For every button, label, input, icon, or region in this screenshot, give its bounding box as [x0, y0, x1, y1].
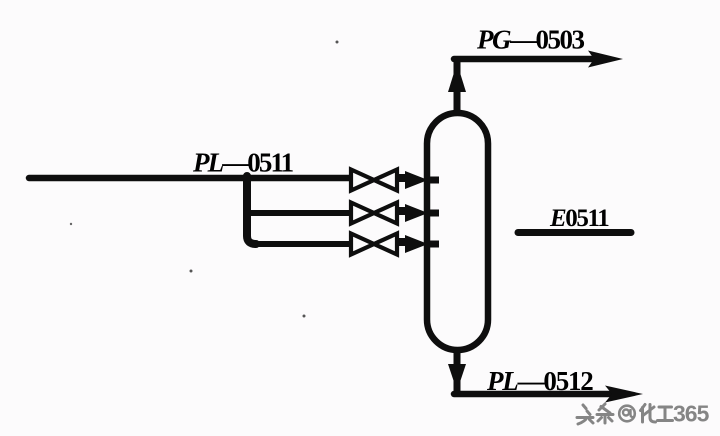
svg-text:365: 365	[673, 401, 710, 427]
arrowhead right on PG-0503 line	[588, 51, 623, 68]
wire vessel top outlet vertical	[454, 59, 461, 113]
vessel (vertical drum)	[427, 113, 488, 350]
wire main feed PL-0511 horizontal	[29, 175, 352, 182]
inlet stub into vessel row1	[427, 177, 439, 184]
arrowhead up on top outlet	[448, 63, 466, 92]
wire PL-0512 bottom horizontal	[454, 391, 610, 398]
svg-text:PG—0503: PG—0503	[476, 25, 585, 55]
arrow into vessel from V2	[397, 204, 428, 222]
wire branch 3 horizontal	[252, 241, 352, 247]
glyph tiao	[597, 404, 613, 423]
scan speck 4	[70, 223, 72, 225]
underline bar of E0511	[518, 229, 631, 236]
scan speck 2	[190, 270, 193, 273]
svg-text:PL—0512: PL—0512	[486, 366, 593, 396]
wire branch 2 horizontal	[247, 210, 352, 216]
inlet stub into vessel row3	[427, 241, 439, 248]
wire vessel bottom outlet vertical	[454, 350, 461, 392]
scan speck 3	[303, 315, 306, 318]
wire PG-0503 top horizontal	[454, 56, 592, 63]
glyph gong	[658, 407, 673, 421]
glyph hua	[641, 405, 656, 423]
arrow into vessel from V1	[397, 171, 428, 189]
glyph tou	[577, 405, 593, 424]
watermark toutiao @huagong365	[577, 404, 613, 424]
arrowhead right on PL-0512 line	[605, 386, 643, 403]
scan speck 1	[336, 41, 339, 44]
arrow into vessel from V3	[397, 235, 428, 253]
watermark at-sign	[619, 406, 635, 422]
wire branch header vertical	[247, 176, 256, 244]
svg-text:E0511: E0511	[549, 205, 609, 232]
svg-text:PL—0511: PL—0511	[192, 148, 294, 178]
inlet stub into vessel row2	[427, 210, 439, 217]
valve V2	[351, 203, 397, 224]
valve V1	[351, 170, 397, 191]
arrowhead down on bottom outlet	[448, 364, 466, 391]
valve V3	[351, 234, 397, 255]
